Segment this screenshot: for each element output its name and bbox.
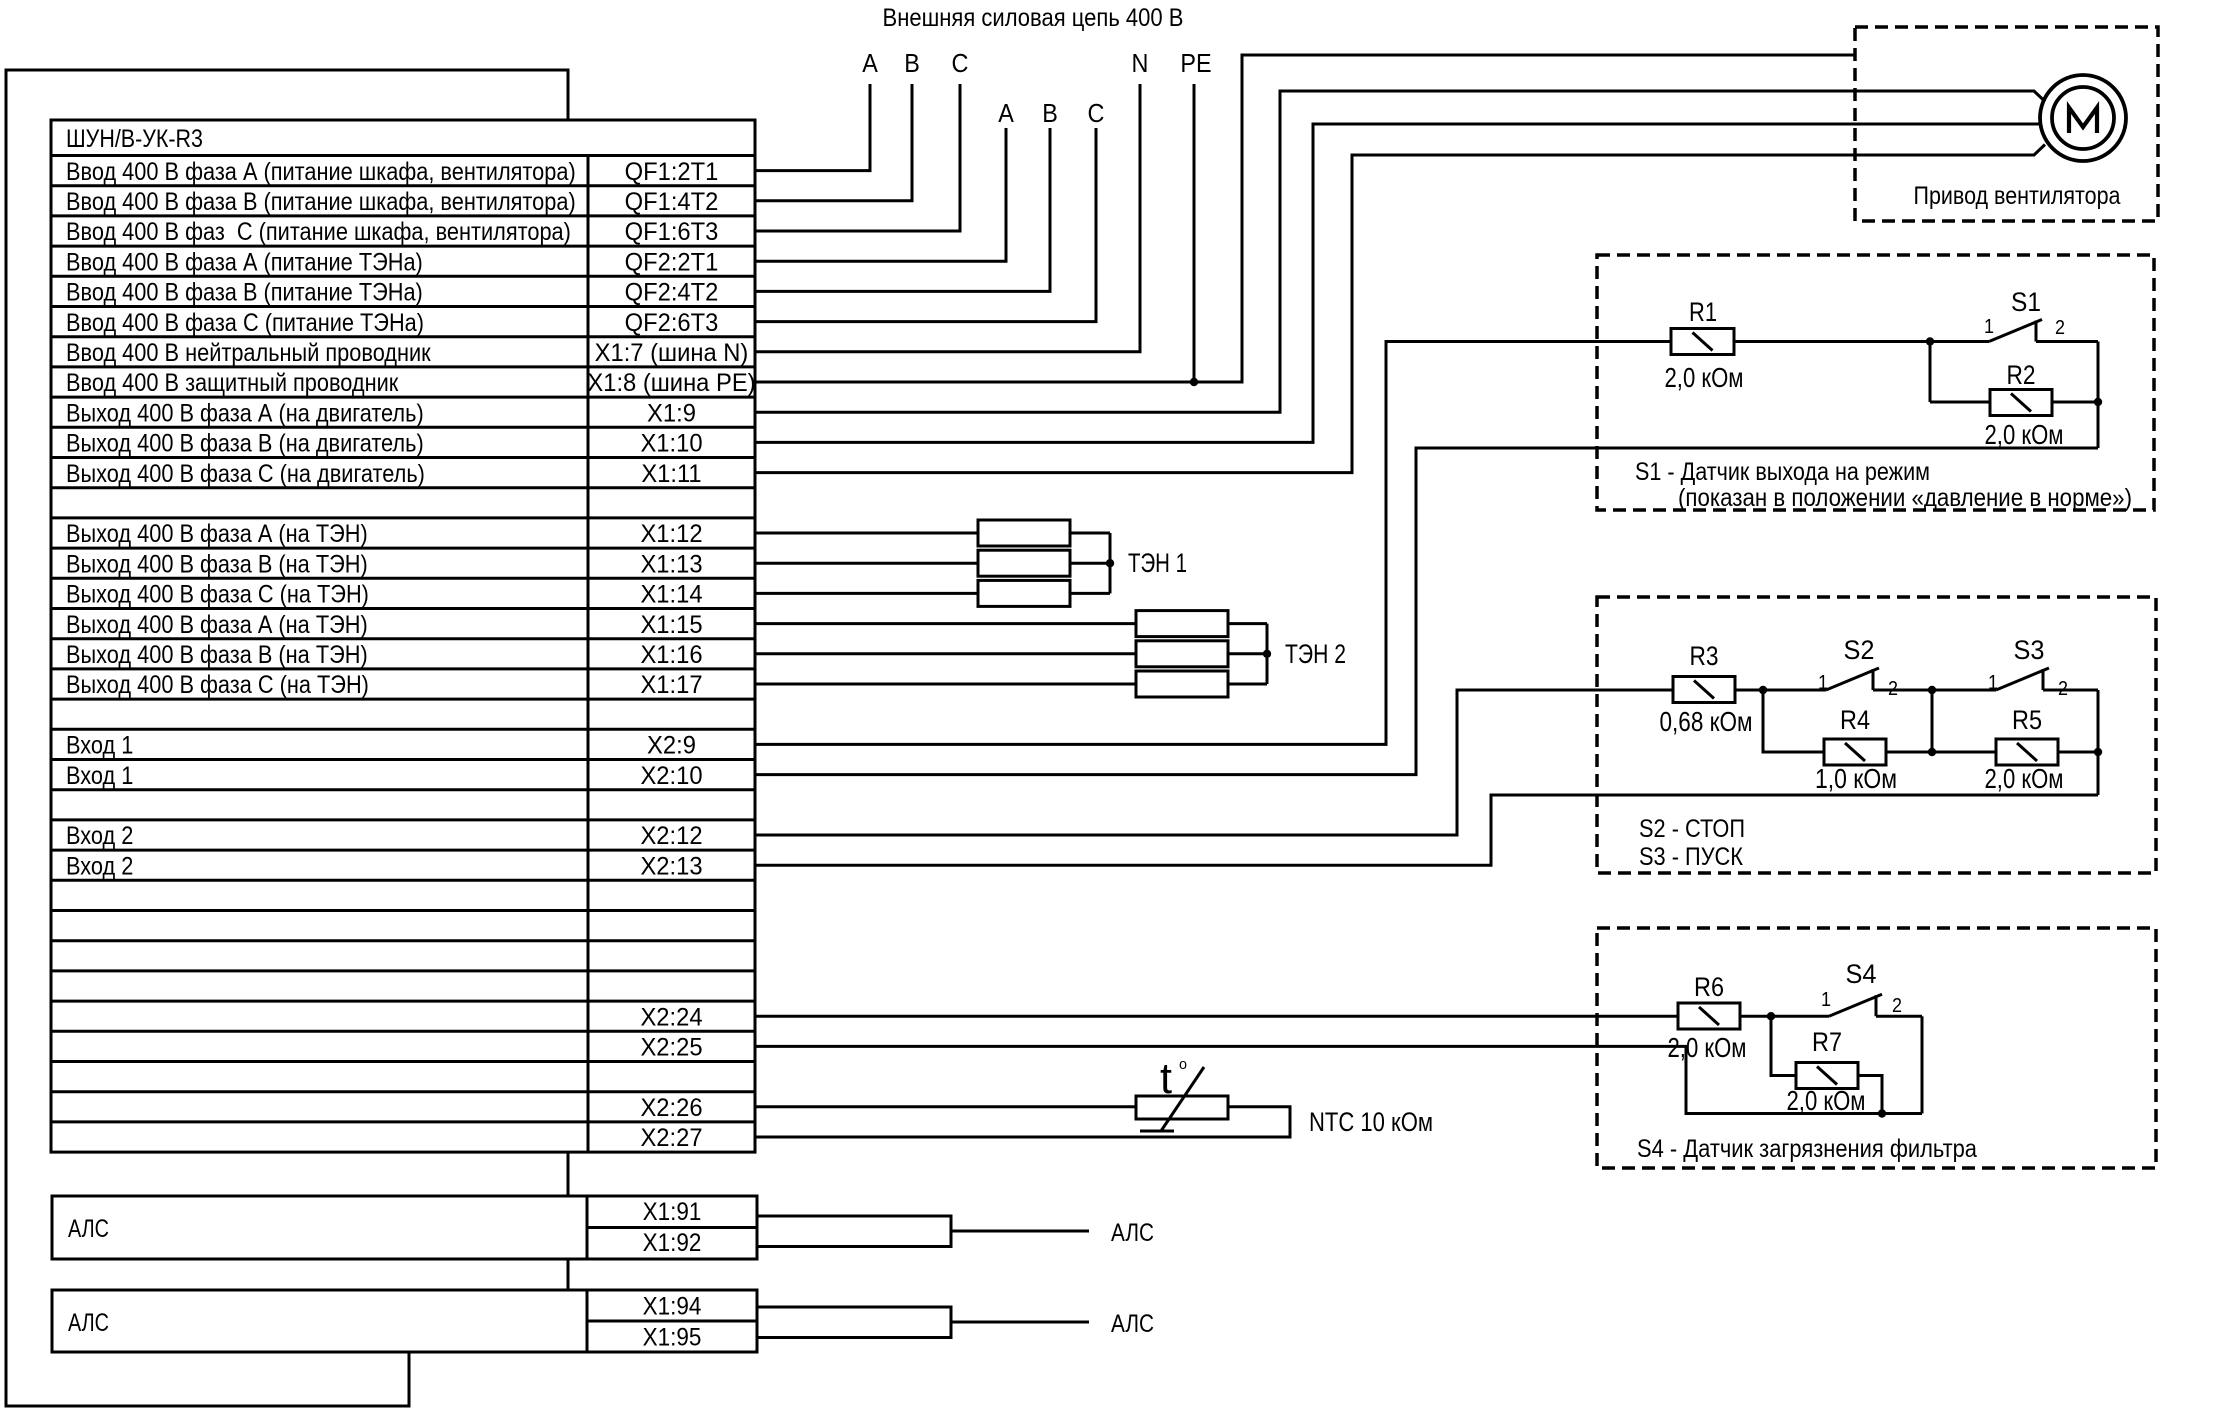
heater element TEN1-1 bbox=[978, 520, 1070, 546]
svg-text:R7: R7 bbox=[1812, 1027, 1842, 1057]
ALS box 2 divider bbox=[586, 1290, 589, 1352]
wire S1 right drop bbox=[2097, 342, 2100, 449]
svg-text:Ввод 400 В фаз С (питание шка: Ввод 400 В фаз С (питание шкафа, вентиля… bbox=[66, 218, 571, 246]
wire TEN1-2 out bbox=[1070, 562, 1110, 565]
ALS cable 1 bbox=[757, 1216, 951, 1247]
svg-text:Вход 1: Вход 1 bbox=[66, 762, 133, 790]
svg-text:X1:95: X1:95 bbox=[643, 1324, 702, 1352]
svg-text:ШУН/В-УК-R3: ШУН/В-УК-R3 bbox=[66, 125, 203, 153]
svg-text:0,68 кОм: 0,68 кОм bbox=[1660, 706, 1753, 737]
junction TEN1 bbox=[1106, 559, 1114, 567]
svg-text:X1:8 (шина PE): X1:8 (шина PE) bbox=[587, 369, 755, 397]
svg-text:АЛС: АЛС bbox=[1111, 1310, 1154, 1338]
svg-text:С: С bbox=[1088, 98, 1105, 128]
svg-text:Выход 400 В фаза А (на ТЭН): Выход 400 В фаза А (на ТЭН) bbox=[66, 611, 368, 639]
wire R6 to S4 bbox=[1740, 1015, 1829, 1018]
svg-text:Выход 400 В фаза С (на двигате: Выход 400 В фаза С (на двигатель) bbox=[66, 460, 425, 488]
svg-text:S3: S3 bbox=[2014, 635, 2045, 665]
svg-text:X2:9: X2:9 bbox=[647, 732, 696, 760]
svg-text:X1:94: X1:94 bbox=[643, 1293, 702, 1321]
wire X1:14 to TEN1 bbox=[755, 592, 978, 595]
svg-text:S1: S1 bbox=[2011, 287, 2041, 317]
heater element TEN2-2 bbox=[1136, 641, 1228, 667]
svg-text:1: 1 bbox=[1818, 672, 1828, 694]
heater element TEN2-3 bbox=[1136, 671, 1228, 697]
wire phase B to QF1:4T2 bbox=[755, 84, 912, 201]
svg-text:QF1:2T1: QF1:2T1 bbox=[625, 158, 719, 186]
wire TEN1-3 out bbox=[1070, 592, 1110, 595]
svg-text:R6: R6 bbox=[1694, 972, 1724, 1002]
wire TEN2 tie bbox=[1266, 624, 1269, 684]
switch S1 bbox=[1989, 320, 2042, 342]
wire to R2 bbox=[1930, 401, 1990, 404]
wire R7 out bbox=[1858, 1076, 1882, 1114]
svg-text:Привод вентилятора: Привод вентилятора bbox=[1914, 182, 2121, 210]
wire R7 branch bbox=[1771, 1016, 1796, 1075]
svg-text:X1:16: X1:16 bbox=[640, 641, 702, 669]
wire X1:17 to TEN2 bbox=[755, 683, 1136, 686]
svg-text:S4: S4 bbox=[1846, 959, 1877, 989]
svg-text:2,0 кОм: 2,0 кОм bbox=[1787, 1085, 1866, 1116]
wire R4 to R5 bbox=[1886, 751, 1996, 754]
S4 dashed box bbox=[1597, 928, 2156, 1168]
S1 sensor dashed box bbox=[1597, 255, 2154, 510]
svg-text:Внешняя силовая цепь 400 В: Внешняя силовая цепь 400 В bbox=[883, 4, 1184, 32]
junction S2 out bbox=[1928, 686, 1936, 694]
wire TEN2-3 out bbox=[1228, 683, 1267, 686]
svg-text:PE: PE bbox=[1180, 48, 1211, 78]
svg-text:R4: R4 bbox=[1840, 705, 1870, 735]
svg-text:1: 1 bbox=[1988, 672, 1998, 694]
ALS box 1 bbox=[52, 1196, 757, 1259]
NTC symbol diagonal bbox=[1161, 1067, 1204, 1131]
svg-text:t: t bbox=[1160, 1054, 1172, 1103]
wire R4 branch bbox=[1763, 690, 1824, 752]
cabinet outline wire (left/bottom boundary) bbox=[6, 70, 568, 1406]
svg-text:R5: R5 bbox=[2012, 705, 2042, 735]
wire N to X1:7 bbox=[755, 84, 1140, 352]
svg-text:ТЭН 2: ТЭН 2 bbox=[1285, 639, 1346, 669]
wire R2 out bbox=[2052, 401, 2098, 404]
svg-text:QF2:6T3: QF2:6T3 bbox=[625, 309, 719, 337]
junction PE bbox=[1190, 378, 1198, 386]
svg-text:2: 2 bbox=[1892, 995, 1902, 1017]
resistor R4 bbox=[1824, 739, 1886, 765]
resistor R5 bbox=[1996, 739, 2058, 765]
NTC symbol foot bbox=[1140, 1130, 1174, 1133]
svg-text:Выход 400 В фаза С (на ТЭН): Выход 400 В фаза С (на ТЭН) bbox=[66, 671, 369, 699]
svg-text:QF2:4T2: QF2:4T2 bbox=[625, 279, 719, 307]
svg-text:o: o bbox=[1179, 1056, 1187, 1073]
svg-text:X1:92: X1:92 bbox=[643, 1229, 702, 1257]
svg-text:А: А bbox=[862, 48, 878, 78]
wire S3 pin2 bbox=[2043, 689, 2098, 692]
svg-text:Выход 400 В фаза С (на ТЭН): Выход 400 В фаза С (на ТЭН) bbox=[66, 581, 369, 609]
svg-text:R2: R2 bbox=[2007, 360, 2036, 390]
resistor R1 bbox=[1671, 329, 1734, 355]
svg-text:Выход 400 В фаза В (на ТЭН): Выход 400 В фаза В (на ТЭН) bbox=[66, 641, 368, 669]
svg-text:X1:7 (шина N): X1:7 (шина N) bbox=[595, 339, 749, 367]
wire phase B to QF2:4T2 bbox=[755, 128, 1050, 291]
connector ALS box 1 to ALS box 2 bbox=[567, 1259, 570, 1290]
svg-text:X1:9: X1:9 bbox=[647, 399, 696, 427]
wire X2:24 to R6 bbox=[755, 1015, 1678, 1018]
junction TEN2 bbox=[1263, 650, 1271, 658]
motor M1 bbox=[2040, 75, 2126, 161]
svg-text:АЛС: АЛС bbox=[68, 1309, 109, 1337]
svg-text:Выход 400 В фаза В (на ТЭН): Выход 400 В фаза В (на ТЭН) bbox=[66, 550, 368, 578]
wire X1:16 to TEN2 bbox=[755, 652, 1136, 655]
svg-text:X2:24: X2:24 bbox=[640, 1003, 702, 1031]
svg-text:R1: R1 bbox=[1689, 297, 1717, 327]
svg-text:А: А bbox=[998, 98, 1014, 128]
wire X1:15 to TEN2 bbox=[755, 622, 1136, 625]
svg-text:Ввод 400 В фаза А (питание ТЭН: Ввод 400 В фаза А (питание ТЭНа) bbox=[66, 248, 423, 276]
svg-text:В: В bbox=[1042, 98, 1058, 128]
svg-text:С: С bbox=[952, 48, 969, 78]
svg-text:АЛС: АЛС bbox=[68, 1215, 109, 1243]
wire ALS 1 out bbox=[951, 1230, 1089, 1233]
wire X1:9 to motor bbox=[755, 91, 2045, 412]
svg-text:2: 2 bbox=[2055, 317, 2065, 339]
svg-text:X1:91: X1:91 bbox=[643, 1198, 702, 1226]
svg-text:X1:14: X1:14 bbox=[640, 581, 702, 609]
svg-text:В: В bbox=[904, 48, 920, 78]
wire phase A to QF1:2T1 bbox=[755, 84, 870, 171]
svg-text:1: 1 bbox=[1984, 316, 1994, 338]
wire middle tie bbox=[1931, 690, 1934, 752]
wire X1:11 to motor bbox=[755, 145, 2045, 473]
svg-text:1,0 кОм: 1,0 кОм bbox=[1815, 763, 1897, 794]
svg-text:Ввод 400 В фаза С (питание ТЭН: Ввод 400 В фаза С (питание ТЭНа) bbox=[66, 309, 424, 337]
svg-text:Выход 400 В фаза А (на двигате: Выход 400 В фаза А (на двигатель) bbox=[66, 399, 424, 427]
svg-text:X1:12: X1:12 bbox=[640, 520, 702, 548]
fan drive dashed box bbox=[1855, 27, 2158, 221]
wire S3 right drop bbox=[2097, 690, 2100, 795]
wire TEN1 tie bbox=[1109, 533, 1112, 593]
resistor R7 bbox=[1796, 1063, 1858, 1089]
wire ALS 2 out bbox=[951, 1321, 1089, 1324]
wire R5 out bbox=[2058, 751, 2098, 754]
svg-text:ТЭН 1: ТЭН 1 bbox=[1128, 548, 1187, 578]
svg-text:X2:10: X2:10 bbox=[640, 762, 702, 790]
svg-text:X2:25: X2:25 bbox=[640, 1034, 702, 1062]
svg-text:QF1:4T2: QF1:4T2 bbox=[625, 188, 719, 216]
svg-text:X1:15: X1:15 bbox=[640, 611, 702, 639]
heater element TEN1-3 bbox=[978, 580, 1070, 606]
wire phase C to QF2:6T3 bbox=[755, 128, 1096, 322]
junction R4 out bbox=[1928, 748, 1936, 756]
wire S4 return to X2:25 bbox=[755, 1046, 1922, 1113]
wire X1:12 to TEN1 bbox=[755, 532, 978, 535]
svg-text:X2:27: X2:27 bbox=[640, 1124, 702, 1152]
junction R5/S3 bbox=[2094, 748, 2102, 756]
svg-text:X2:12: X2:12 bbox=[640, 822, 702, 850]
svg-text:2,0 кОм: 2,0 кОм bbox=[1665, 362, 1744, 393]
wire S1 pin2 bbox=[2036, 340, 2098, 343]
wire S2 to S3 bbox=[1873, 689, 1996, 692]
ALS box 1 divider bbox=[586, 1196, 589, 1259]
svg-text:N: N bbox=[1132, 48, 1149, 78]
svg-text:S2: S2 bbox=[1844, 635, 1875, 665]
resistor R2 bbox=[1990, 390, 2052, 416]
S2/S3 dashed box bbox=[1597, 597, 2156, 873]
svg-text:X2:13: X2:13 bbox=[640, 852, 702, 880]
svg-text:2,0 кОм: 2,0 кОм bbox=[1985, 419, 2064, 450]
heater element TEN1-2 bbox=[978, 550, 1070, 576]
wire R2 branch down bbox=[1929, 342, 1932, 403]
svg-text:Вход 2: Вход 2 bbox=[66, 822, 133, 850]
heater element TEN2-1 bbox=[1136, 611, 1228, 637]
svg-text:(показан в положении «давление: (показан в положении «давление в норме») bbox=[1678, 484, 2132, 512]
svg-text:QF1:6T3: QF1:6T3 bbox=[625, 218, 719, 246]
connector table bottom to ALS box 1 bbox=[567, 1152, 570, 1196]
junction R7 return bbox=[1878, 1109, 1886, 1117]
svg-text:X1:17: X1:17 bbox=[640, 671, 702, 699]
junction R6/R7 branch bbox=[1767, 1012, 1775, 1020]
wire S4 pin2 bbox=[1876, 1015, 1922, 1018]
wire X2:12 to R3 bbox=[755, 690, 1673, 835]
svg-text:Ввод 400 В фаза А (питание шка: Ввод 400 В фаза А (питание шкафа, вентил… bbox=[66, 158, 576, 186]
svg-text:Ввод 400 В защитный проводник: Ввод 400 В защитный проводник bbox=[66, 369, 399, 397]
svg-text:S1 - Датчик выхода на режим: S1 - Датчик выхода на режим bbox=[1635, 458, 1930, 486]
ALS box 1 mid line bbox=[587, 1226, 757, 1229]
ALS box 2 bbox=[52, 1290, 757, 1352]
wire TEN1-1 out bbox=[1070, 532, 1110, 535]
svg-text:NTC 10 кОм: NTC 10 кОм bbox=[1309, 1107, 1433, 1137]
svg-text:S2 - СТОП: S2 - СТОП bbox=[1639, 815, 1745, 843]
resistor R6 bbox=[1678, 1003, 1740, 1029]
wire X2:26 to NTC bbox=[755, 1105, 1136, 1108]
svg-text:R3: R3 bbox=[1690, 641, 1719, 671]
svg-text:QF2:2T1: QF2:2T1 bbox=[625, 248, 719, 276]
svg-text:X2:26: X2:26 bbox=[640, 1094, 702, 1122]
svg-text:X1:13: X1:13 bbox=[640, 550, 702, 578]
switch S2 bbox=[1826, 668, 1879, 690]
svg-text:Ввод 400 В нейтральный проводн: Ввод 400 В нейтральный проводник bbox=[66, 339, 432, 367]
wire X1:10 to motor bbox=[755, 124, 2041, 442]
svg-text:Ввод 400 В фаза В (питание шка: Ввод 400 В фаза В (питание шкафа, вентил… bbox=[66, 188, 576, 216]
wire TEN2-1 out bbox=[1228, 622, 1267, 625]
wire S1 return to X2:10 bbox=[755, 448, 2098, 775]
wire X1:8 PE to motor box bbox=[755, 55, 1855, 382]
ALS cable 2 bbox=[757, 1307, 951, 1338]
svg-text:S3 - ПУСК: S3 - ПУСК bbox=[1639, 843, 1743, 871]
wire X1:13 to TEN1 bbox=[755, 562, 978, 565]
svg-text:Вход 2: Вход 2 bbox=[66, 852, 133, 880]
svg-text:Выход 400 В фаза В (на двигате: Выход 400 В фаза В (на двигатель) bbox=[66, 430, 424, 458]
svg-text:Вход 1: Вход 1 bbox=[66, 732, 133, 760]
wire phase C to QF1:6T3 bbox=[755, 84, 960, 231]
wire TEN2-2 out bbox=[1228, 652, 1267, 655]
junction R2/S1 bbox=[2094, 398, 2102, 406]
svg-text:1: 1 bbox=[1821, 989, 1831, 1011]
svg-text:2,0 кОм: 2,0 кОм bbox=[1985, 763, 2064, 794]
ALS box 2 mid line bbox=[587, 1320, 757, 1323]
cabinet table ШУН/В-УК-R3 bbox=[51, 120, 755, 1152]
svg-text:АЛС: АЛС bbox=[1111, 1219, 1154, 1247]
junction R3/R4 branch bbox=[1759, 686, 1767, 694]
wire R3 to S2 bbox=[1735, 689, 1826, 692]
wire PE label drop bbox=[1193, 84, 1196, 382]
wire X2:9 to R1 bbox=[755, 342, 1671, 745]
junction R1/R2 branch bbox=[1926, 337, 1934, 345]
wire S4 right drop bbox=[1921, 1016, 1924, 1113]
switch S4 bbox=[1829, 994, 1882, 1016]
svg-text:X1:11: X1:11 bbox=[641, 460, 701, 488]
switch S3 bbox=[1996, 668, 2049, 690]
wire NTC return to X2:27 bbox=[755, 1107, 1290, 1137]
wire R1 to S1 bbox=[1734, 340, 1989, 343]
thermistor NTC bbox=[1136, 1096, 1228, 1119]
svg-text:Ввод 400 В фаза В (питание ТЭН: Ввод 400 В фаза В (питание ТЭНа) bbox=[66, 279, 423, 307]
svg-text:X1:10: X1:10 bbox=[640, 430, 702, 458]
wire phase A to QF2:2T1 bbox=[755, 128, 1006, 261]
wire S2S3 return to X2:13 bbox=[755, 795, 2098, 865]
svg-text:S4 - Датчик загрязнения фильтр: S4 - Датчик загрязнения фильтра bbox=[1637, 1135, 1977, 1163]
resistor R3 bbox=[1673, 677, 1735, 703]
svg-text:Выход 400 В фаза А (на ТЭН): Выход 400 В фаза А (на ТЭН) bbox=[66, 520, 368, 548]
